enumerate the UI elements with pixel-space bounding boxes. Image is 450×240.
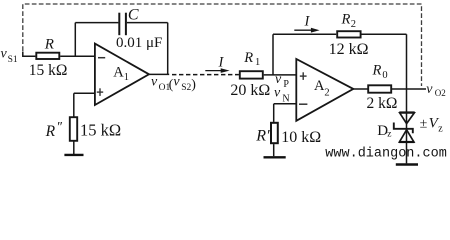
svg-text:A: A (113, 65, 124, 81)
svg-text:R: R (341, 12, 351, 28)
svg-text:1: 1 (255, 57, 260, 68)
svg-text:15 kΩ: 15 kΩ (29, 62, 68, 79)
svg-text:R: R (45, 123, 56, 140)
svg-text:10 kΩ: 10 kΩ (281, 129, 321, 146)
svg-text:1: 1 (124, 72, 129, 83)
svg-text:0: 0 (382, 70, 387, 81)
svg-text:www.diangon.com: www.diangon.com (325, 147, 447, 162)
svg-text:z: z (387, 130, 391, 140)
svg-text:2: 2 (324, 87, 329, 98)
svg-text:z: z (438, 123, 443, 134)
svg-text:v: v (151, 75, 158, 90)
svg-text:′′: ′′ (57, 120, 63, 135)
svg-text:v: v (426, 82, 433, 97)
svg-text:2: 2 (351, 19, 356, 30)
svg-text:0.01 μF: 0.01 μF (116, 35, 162, 51)
svg-text:R: R (372, 63, 382, 79)
svg-text:): ) (191, 77, 196, 92)
svg-text:20 kΩ: 20 kΩ (230, 82, 270, 99)
svg-text:v: v (1, 47, 8, 62)
svg-text:±: ± (420, 117, 428, 132)
svg-text:O2: O2 (435, 88, 446, 98)
svg-text:N: N (282, 93, 289, 104)
svg-text:A: A (314, 78, 325, 94)
svg-text:v: v (173, 75, 180, 90)
svg-text:R′: R′ (255, 127, 270, 144)
svg-text:P: P (283, 79, 289, 90)
svg-text:12 kΩ: 12 kΩ (329, 41, 369, 58)
svg-text:R: R (243, 50, 253, 66)
svg-text:C: C (128, 6, 139, 23)
svg-text:S2: S2 (181, 83, 191, 93)
svg-text:R: R (44, 37, 54, 53)
svg-text:S1: S1 (8, 55, 18, 65)
svg-text:2 kΩ: 2 kΩ (367, 95, 398, 112)
svg-text:v: v (274, 85, 281, 100)
svg-text:15 kΩ: 15 kΩ (80, 121, 121, 140)
